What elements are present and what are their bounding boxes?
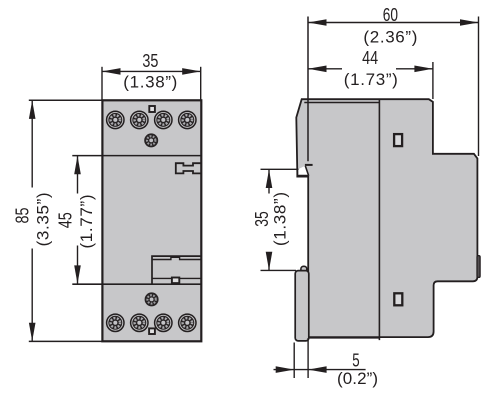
front view body — [102, 100, 201, 341]
svg-text:35: 35 — [142, 50, 158, 71]
divider line top/middle (with 45-dim extension to left) — [72, 155, 201, 157]
top terminal screw 1 — [107, 111, 124, 128]
side bottom square window — [394, 293, 402, 305]
svg-text:44: 44 — [362, 47, 378, 68]
right side bar detail — [477, 256, 480, 278]
svg-text:(0.2”): (0.2”) — [337, 369, 378, 388]
dim 85: top arrowhead — [29, 100, 36, 119]
dim 35 side: top arrowhead — [266, 170, 273, 189]
dim 35 top: left arrowhead — [102, 68, 121, 75]
terminal cover inner bottom line — [152, 277, 201, 279]
bottom terminal screw 4 — [179, 314, 196, 331]
dim 35 side: bottom arrowhead — [266, 252, 273, 271]
dim 45 left: dimension line (broken for text) — [77, 156, 79, 194]
bottom spring clip release bump — [301, 266, 307, 273]
dim 35 side: bottom extension line — [261, 269, 297, 271]
dim 60: dimension line — [308, 22, 479, 24]
terminal cover box lower middle — [152, 256, 201, 284]
top small square window — [149, 106, 155, 112]
side inner bottom edge line with left step — [300, 338, 380, 341]
85-dim bottom extension line — [29, 340, 102, 342]
side view body outline — [296, 99, 477, 337]
side clip dog-bone detail on right of middle section — [176, 163, 202, 173]
dim 45: top arrowhead — [74, 156, 81, 175]
dim 5 bottom: dimension line with leader — [274, 369, 366, 371]
dim 60: right extension line — [478, 17, 480, 157]
85-dim top extension line — [29, 99, 102, 101]
dim 5 bottom: right extension line — [307, 338, 309, 378]
dim 35 top: dimension line — [102, 70, 201, 72]
svg-text:45: 45 — [54, 212, 75, 228]
dim 44: right arrowhead — [414, 66, 433, 73]
dim 35 top: extension lines — [101, 67, 103, 100]
divider line middle/bottom (with 45-dim extension to left) — [72, 283, 201, 285]
bottom small square window — [149, 328, 155, 334]
svg-text:(1.73”): (1.73”) — [344, 70, 398, 89]
svg-text:35: 35 — [251, 211, 272, 227]
terminal cover inner top line with tab — [152, 257, 201, 259]
DIN hook white notch — [299, 166, 308, 175]
dim 5: left arrowhead (pointing right) — [276, 366, 295, 373]
svg-text:60: 60 — [383, 4, 398, 25]
svg-text:5: 5 — [352, 349, 359, 370]
svg-text:(1.77”): (1.77”) — [77, 195, 96, 249]
dim 35 side: dimension line (broken for text) — [268, 170, 270, 194]
DIN hook diagonal — [305, 166, 308, 176]
DIN hook lip bar — [305, 164, 313, 166]
dim 44: right extension line — [432, 62, 434, 99]
dim 60: left arrowhead — [308, 19, 327, 26]
dim 35 side: top extension line — [261, 168, 299, 170]
bottom terminal screw 3 — [155, 314, 172, 331]
top terminal screw 3 — [155, 111, 172, 128]
dim 45: bottom arrowhead — [74, 265, 81, 284]
side inner top edge line — [304, 102, 379, 104]
bottom terminal screw 2 — [131, 314, 148, 331]
side vertical division line — [378, 100, 380, 341]
bottom terminal screw 1 — [107, 314, 124, 331]
dim 85 left: dimension line (broken for text) — [31, 101, 33, 188]
top single screw — [144, 133, 158, 147]
dim 5 bottom: left extension line — [293, 343, 295, 379]
svg-text:85: 85 — [12, 208, 33, 224]
dim 60: right arrowhead — [460, 19, 479, 26]
svg-text:(1.38”): (1.38”) — [271, 192, 290, 246]
dim 44: left arrowhead — [308, 66, 327, 73]
top terminal screw 2 — [131, 111, 148, 128]
terminal cover small square tab — [172, 278, 179, 284]
dim 35 top: right arrowhead — [182, 68, 201, 75]
svg-text:(3.35”): (3.35”) — [33, 192, 52, 246]
dim 44: dimension line (broken for text) — [308, 68, 342, 70]
svg-text:(2.36”): (2.36”) — [363, 27, 417, 46]
dim 5: right arrowhead (pointing left) — [308, 366, 327, 373]
svg-text:(1.38”): (1.38”) — [123, 73, 177, 92]
dim 85: bottom arrowhead — [29, 323, 36, 342]
bottom single screw — [145, 292, 159, 306]
bottom spring clip — [295, 271, 309, 341]
top terminal screw 4 — [179, 111, 196, 128]
DIN hook bottom bar — [297, 175, 308, 177]
side top square window — [394, 134, 402, 146]
DIN groove front line / 44-60 left extension line — [307, 17, 309, 162]
